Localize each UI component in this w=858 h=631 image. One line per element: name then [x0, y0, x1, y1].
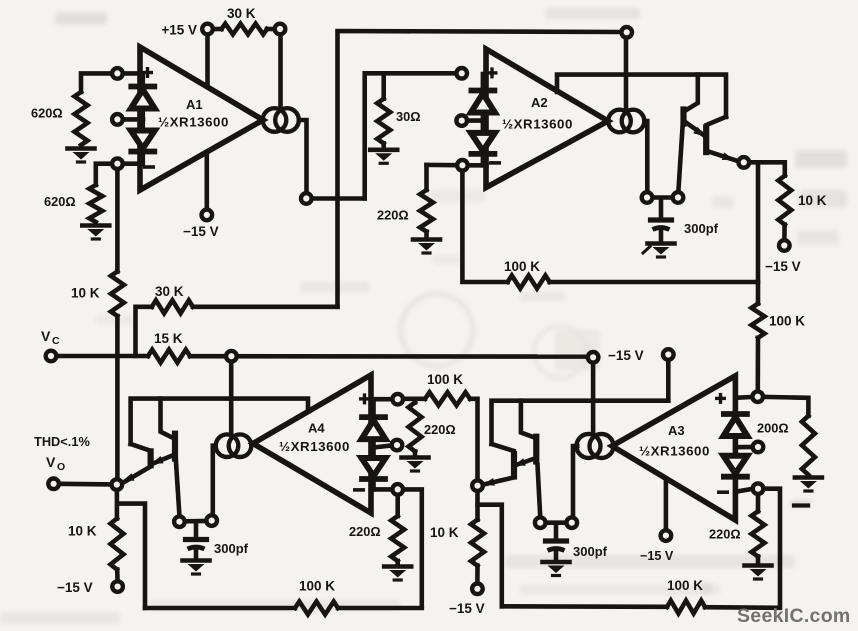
- label -15 V (A3 pin): [640, 549, 674, 563]
- node 15K junction: [226, 351, 237, 362]
- transistor Q2 (A4) emitter: [123, 467, 151, 484]
- wire between A3 bottom terminals: [547, 520, 565, 525]
- label 300pf (A2): [684, 221, 719, 236]
- wire A4 collector rail: [131, 399, 308, 444]
- wire A1 - input down: [115, 170, 120, 271]
- svg-text:200Ω: 200Ω: [757, 421, 789, 436]
- label 100 K (bottom right): [667, 578, 703, 593]
- A2 output current-mirror symbol: [608, 110, 644, 133]
- transistor Q1 (A4 Darlington) collector: [161, 399, 174, 439]
- A4 output current-mirror symbol: [216, 434, 252, 457]
- terminal A2 base node: [673, 192, 684, 203]
- svg-text:½XR13600: ½XR13600: [639, 444, 710, 459]
- label -15 V (lower left): [57, 580, 93, 595]
- resistor 10 K (right): [778, 176, 791, 225]
- wire A3 cap to ground: [554, 551, 559, 561]
- ground (620 ohm upper): [68, 149, 95, 163]
- wire A3 output down: [573, 446, 577, 516]
- terminal A3 + input: [752, 391, 763, 402]
- resistor 100 K (bottom right): [667, 601, 705, 614]
- svg-text:C: C: [52, 335, 60, 347]
- svg-text:O: O: [57, 461, 65, 473]
- transistor Q2 (A3 Darlington) collector: [492, 444, 514, 451]
- resistor 220 ohm (A3): [752, 511, 765, 556]
- op-amp A4 labels: [279, 421, 350, 455]
- ground (30 ohm): [370, 143, 397, 163]
- wire A2 bias stub: [468, 118, 483, 123]
- transistor Q1 (A3 Darlington) base bar: [533, 434, 539, 465]
- op-amp A1 labels: [158, 97, 229, 130]
- wire between A4 bottom terminals: [186, 519, 205, 524]
- wire 10K to -15V (A3): [475, 566, 480, 583]
- ground (220 ohm A4 -): [384, 561, 411, 580]
- capacitor 300pf (A3): [546, 541, 567, 551]
- label 10 K (right): [798, 193, 827, 208]
- terminal A4 diode bias: [392, 440, 403, 451]
- diode D2 (A1): [131, 131, 155, 152]
- wire A3 collector rail: [492, 401, 669, 444]
- wire emitter row to 100K vertical: [756, 162, 761, 303]
- A3 non-inverting input mark: [717, 395, 725, 403]
- wire VO to junction: [60, 481, 110, 486]
- svg-text:½XR13600: ½XR13600: [158, 115, 229, 130]
- wire Q1 base lead down (A4): [176, 462, 179, 515]
- svg-text:−15 V: −15 V: [449, 601, 485, 616]
- resistor 220 ohm (A4 bias): [409, 402, 422, 451]
- transistor Q2 (A2) emitter: [707, 151, 738, 161]
- terminal A4 + input: [392, 394, 403, 405]
- wire A4 + row: [404, 396, 425, 401]
- svg-text:100 K: 100 K: [667, 578, 703, 593]
- wire 10K to -15V: [782, 225, 787, 239]
- terminal -15 V (A3 pin): [661, 530, 672, 541]
- svg-text:30 K: 30 K: [227, 6, 256, 21]
- label 100 K (bottom left): [299, 579, 335, 594]
- resistor 30 K (top feedback): [214, 24, 274, 35]
- terminal +15 V (A1): [202, 24, 213, 35]
- svg-text:620Ω: 620Ω: [31, 106, 63, 121]
- wire A1 diode chain: [141, 73, 146, 164]
- svg-text:+15 V: +15 V: [161, 23, 197, 38]
- ground (620 ohm lower): [82, 226, 109, 240]
- label +15 V: [161, 23, 197, 38]
- label 100 K (under A2): [504, 259, 540, 274]
- resistor 200 ohm: [802, 416, 815, 475]
- wire VC row with 15 K: [58, 354, 587, 359]
- label VO: [46, 454, 65, 473]
- wire A4 cap stub: [194, 523, 199, 537]
- label THD<1%: [34, 434, 90, 449]
- wire junction down to A4 output mirror: [229, 363, 234, 435]
- svg-text:220Ω: 220Ω: [424, 422, 456, 437]
- terminal VO: [48, 479, 59, 490]
- wire 10K to -15V (lower left): [115, 570, 120, 581]
- label 10 K (A3): [430, 525, 459, 540]
- wire A1 - input to 620 ohm: [96, 164, 111, 185]
- wire A3 - input to edge: [735, 489, 751, 492]
- wire A2 collector rail: [557, 75, 726, 117]
- op-amp A3 (½XR13600) triangle: [612, 376, 735, 520]
- label 30 ohm: [396, 109, 421, 124]
- transistor Q1 (A2 Darlington) collector: [686, 75, 698, 111]
- label 220 ohm (A3): [709, 527, 741, 542]
- svg-text:220Ω: 220Ω: [377, 208, 409, 223]
- transistor Q1 (A3) emitter: [514, 458, 535, 466]
- svg-text:10 K: 10 K: [430, 525, 459, 540]
- transistor Q2 (A3) emitter: [483, 478, 513, 486]
- svg-text:−15 V: −15 V: [57, 580, 93, 595]
- wire A4 bias stub: [374, 446, 391, 448]
- resistor 100 K (under A2): [508, 276, 550, 289]
- wire A4 - to bottom row: [404, 489, 422, 606]
- wire VO branch to bottom row: [117, 504, 145, 608]
- terminal A2 - input: [457, 160, 468, 171]
- terminal A4 base node: [174, 516, 185, 527]
- wire A2 - input line: [427, 163, 487, 168]
- wire bottom row right: [502, 604, 667, 609]
- ground (220 ohm A3): [745, 557, 772, 580]
- svg-text:30Ω: 30Ω: [396, 109, 421, 124]
- wire 100K row down to A3 emitter node: [470, 399, 478, 479]
- ground (A3 cap): [543, 562, 570, 576]
- wire 30K right down to A1 output: [278, 36, 283, 109]
- wire A2 - to 100K row: [462, 172, 507, 282]
- resistor 620 ohm (lower): [89, 185, 102, 222]
- wire A1 + input to 620 ohm: [81, 73, 111, 92]
- wire junction to 10 K lower: [115, 491, 120, 518]
- svg-text:30 K: 30 K: [155, 284, 184, 299]
- op-amp A4 (½XR13600) triangle: [253, 375, 371, 513]
- label 100 K (A4 +): [427, 372, 463, 387]
- wire -15V to A3 collector rail: [666, 361, 671, 400]
- wire A3 bias stub: [735, 445, 751, 450]
- transistor Q1 (A4 Darlington) base bar: [172, 431, 178, 462]
- wire 30 ohm stub: [381, 75, 386, 99]
- wire A1 -15V pin: [205, 152, 210, 208]
- svg-text:−15 V: −15 V: [765, 259, 801, 274]
- diode D1 (A4): [362, 417, 386, 439]
- wire A4 diode chain: [371, 399, 376, 489]
- label -15 V (A1): [183, 224, 219, 239]
- wire 10K to VC row and VO: [115, 316, 120, 478]
- svg-text:½XR13600: ½XR13600: [279, 439, 350, 454]
- resistor 30 K (mid): [136, 300, 338, 356]
- wire A4 - input to edge: [371, 487, 391, 492]
- svg-text:220Ω: 220Ω: [709, 527, 741, 542]
- op-amp A3 labels: [639, 423, 710, 459]
- wire A2 output down: [645, 121, 648, 191]
- transistor Q2 (A4 Darlington) base bar: [148, 448, 154, 468]
- transistor Q2 (A3 Darlington) base bar: [511, 451, 517, 480]
- label 100 K (right vertical): [769, 314, 805, 329]
- label 220 ohm (A2 -): [377, 208, 409, 223]
- diode D2 (A4): [362, 458, 386, 479]
- label VC: [41, 328, 60, 347]
- wire bottom row left: [145, 606, 295, 611]
- terminal VC: [46, 351, 57, 362]
- label 200 ohm: [757, 421, 789, 436]
- ground (A4 cap): [183, 561, 210, 575]
- terminal -15 V row left: [588, 352, 599, 363]
- label -15 V (right): [765, 259, 801, 274]
- wire emitter node to 10 K: [750, 162, 784, 175]
- A1 output current-mirror symbol: [263, 108, 299, 132]
- resistor 220 ohm (A4 -): [391, 516, 404, 561]
- label 300pf (A3): [573, 544, 608, 559]
- svg-text:10 K: 10 K: [798, 193, 827, 208]
- transistor Q2 (A2) collector: [707, 117, 726, 125]
- wire bottom row left to A4 - corner: [338, 606, 422, 611]
- label 30 K (mid): [155, 284, 184, 299]
- svg-text:10 K: 10 K: [68, 524, 97, 539]
- resistor 620 ohm (upper): [75, 92, 88, 145]
- label 10 K (VC upper): [71, 286, 100, 301]
- svg-text:THD<.1%: THD<.1%: [34, 434, 90, 449]
- wire A1 + input to edge: [124, 71, 141, 76]
- transistor Q2 (A2 Darlington) base bar: [703, 124, 709, 155]
- transistor Q2 (A4 Darlington) collector: [131, 444, 151, 451]
- wire A3 cap stub: [554, 525, 559, 539]
- A3 output current-mirror symbol: [577, 434, 614, 458]
- wire A4 cap to ground: [194, 550, 199, 560]
- wire A2 top terminal down: [624, 39, 629, 111]
- resistor 100 K (A4 +): [425, 392, 470, 405]
- svg-text:−15 V: −15 V: [183, 224, 219, 239]
- ground (220 ohm A2): [413, 232, 440, 253]
- A2 non-inverting input mark: [488, 69, 496, 77]
- terminal -15 V (A3 mid): [472, 584, 483, 595]
- terminal A3 diode bias: [753, 442, 764, 453]
- svg-text:15 K: 15 K: [154, 331, 183, 346]
- op-amp A2 (½XR13600) triangle: [486, 49, 608, 188]
- A4 inverting input mark: [355, 488, 363, 492]
- A1 inverting input mark: [145, 165, 153, 169]
- wire A3 emitter node branch: [478, 492, 502, 606]
- wire Q1 base lead down (A3): [538, 465, 541, 516]
- label -15 V (A3 mid): [449, 601, 485, 616]
- diode D2 (A3): [723, 456, 747, 477]
- terminal A3 output node: [567, 517, 578, 528]
- wire A4 - 220 drop: [395, 496, 400, 516]
- label 220 ohm (A4 bias): [424, 422, 456, 437]
- terminal 30K right: [275, 24, 286, 35]
- wire A2 diode chain: [481, 74, 486, 165]
- label 15 K: [154, 331, 183, 346]
- terminal A2 output node: [642, 192, 653, 203]
- wire A3 - 220 drop: [756, 495, 761, 511]
- terminal A4 - input: [392, 484, 403, 495]
- label 220 ohm (A4 -): [349, 524, 381, 539]
- terminal A3 base node: [535, 517, 546, 528]
- wire 220 ohm bias drop (A4): [413, 399, 418, 403]
- resistor 100 K (right vertical): [752, 304, 765, 338]
- label -15 V (A3 top row): [608, 348, 644, 363]
- wire between A2 bottom terminals: [654, 195, 672, 200]
- svg-text:620Ω: 620Ω: [44, 194, 76, 209]
- svg-text:A4: A4: [308, 421, 325, 436]
- ground (A2 cap): [643, 244, 675, 258]
- svg-text:10 K: 10 K: [71, 286, 100, 301]
- svg-text:100 K: 100 K: [299, 579, 335, 594]
- terminal A1 - input: [112, 158, 123, 169]
- svg-text:−15 V: −15 V: [640, 549, 674, 563]
- svg-text:100 K: 100 K: [769, 314, 805, 329]
- wire A3 + to 200 ohm: [764, 397, 808, 416]
- wire A3 + input to edge: [735, 395, 751, 400]
- label 30 K (top): [227, 6, 256, 21]
- terminal A2 + input: [456, 68, 467, 79]
- capacitor 300pf (A2): [651, 220, 672, 230]
- terminal -15 V (lower left): [112, 581, 123, 592]
- op-amp A1 (½XR13600) triangle: [140, 47, 263, 190]
- wire A3 -15V pin: [664, 478, 669, 529]
- wire long top feedback: [338, 31, 621, 307]
- svg-text:V: V: [46, 454, 56, 470]
- diode D2 (A2): [471, 133, 495, 154]
- terminal A2 diode bias: [456, 115, 467, 126]
- wire output junction row: [313, 196, 365, 201]
- terminal A2 top (+ supply): [621, 27, 632, 38]
- terminal -15 V (right): [779, 240, 790, 251]
- svg-text:V: V: [41, 328, 51, 344]
- op-amp A2 labels: [502, 95, 573, 132]
- stray mark: [794, 503, 808, 507]
- svg-text:300pf: 300pf: [684, 221, 719, 236]
- diode D1 (A3): [723, 414, 747, 436]
- terminal A1 + input: [112, 68, 123, 79]
- wire 100K row to right vertical: [550, 280, 758, 285]
- resistor 10 K (lower left): [111, 519, 124, 570]
- wire A2 cap to ground: [659, 230, 664, 242]
- A2 inverting input mark: [491, 161, 499, 165]
- svg-text:100 K: 100 K: [504, 259, 540, 274]
- label 300pf (A4): [214, 541, 249, 556]
- svg-text:SeekIC.com: SeekIC.com: [737, 605, 851, 627]
- resistor 10 K (A3): [471, 520, 484, 566]
- transistor Q1 (A2 Darlington) base bar: [680, 106, 686, 126]
- wire +15V to A1 top: [205, 37, 210, 87]
- wire A2 cap stub: [659, 200, 664, 218]
- wire A1 - input to edge: [124, 161, 141, 166]
- transistor Q1 (A3 Darlington) collector: [521, 401, 535, 438]
- wire A1 bias stub: [124, 117, 143, 122]
- svg-text:−15 V: −15 V: [608, 348, 644, 363]
- label 620 ohm (upper): [31, 106, 63, 121]
- ground (220 ohm A4 bias): [402, 451, 429, 471]
- node VO junction: [112, 479, 123, 490]
- terminal A4 output node: [206, 515, 217, 526]
- wire feedback to A2 + input: [365, 73, 455, 198]
- resistor 100 K (bottom left): [295, 602, 338, 615]
- resistor 220 ohm (A2 -): [420, 190, 433, 232]
- A1 non-inverting input mark: [144, 69, 152, 77]
- terminal -15 V row right: [663, 349, 674, 360]
- terminal A3 - input: [753, 483, 764, 494]
- transistor Q1 (A2) emitter: [685, 122, 706, 137]
- transistor Q1 (A4) emitter: [152, 455, 174, 464]
- resistor 10 K (VC upper): [111, 272, 124, 317]
- svg-text:220Ω: 220Ω: [349, 524, 381, 539]
- ground (200 ohm): [795, 478, 822, 492]
- diode D1 (A2): [471, 91, 495, 113]
- diode D1 (A1): [131, 87, 155, 109]
- wire 220 ohm drop (A2 -): [424, 165, 429, 190]
- wire 100K vertical to A3 + input: [755, 338, 760, 390]
- terminal A1 diode bias: [112, 114, 123, 125]
- terminal A3 emitter node: [472, 480, 483, 491]
- terminal -15 V (A1): [202, 210, 213, 221]
- label 620 ohm (lower): [44, 194, 76, 209]
- wire A4 output down: [213, 446, 216, 514]
- resistor 15 K: [148, 350, 190, 363]
- wire bottom row right up to A3 -: [705, 489, 780, 608]
- capacitor 300pf (A4): [186, 540, 207, 550]
- node A1 output junction: [301, 193, 312, 204]
- svg-text:300pf: 300pf: [214, 541, 249, 556]
- svg-text:½XR13600: ½XR13600: [502, 117, 573, 132]
- svg-text:A3: A3: [668, 423, 685, 438]
- wire A3 diode chain: [733, 399, 738, 489]
- wire A4 + input to edge: [371, 397, 391, 402]
- resistor 30 ohm: [377, 99, 390, 144]
- watermark SeekIC.com: [737, 605, 851, 627]
- wire A3 V+ down to mirror: [591, 364, 596, 434]
- svg-text:A2: A2: [531, 95, 548, 110]
- label 10 K (lower left): [68, 524, 97, 539]
- A3 inverting input mark: [719, 490, 727, 494]
- svg-text:300pf: 300pf: [573, 544, 608, 559]
- wire Q1 base lead down: [678, 128, 682, 191]
- terminal A2 emitter node: [739, 157, 750, 168]
- svg-text:A1: A1: [186, 97, 203, 112]
- A4 non-inverting input mark: [361, 395, 369, 403]
- svg-text:100 K: 100 K: [427, 372, 463, 387]
- wire A1 output elbow: [299, 120, 307, 192]
